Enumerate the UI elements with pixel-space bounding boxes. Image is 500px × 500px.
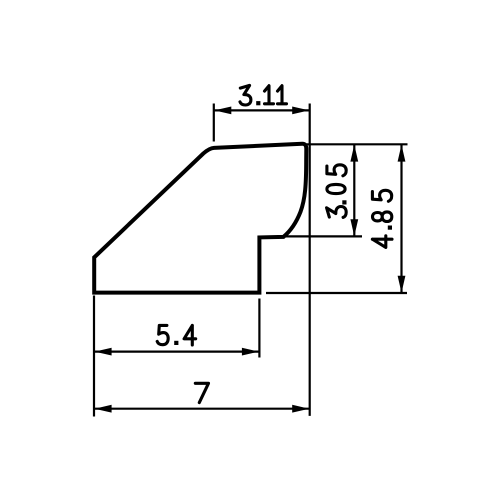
label 3.05 (rotated)	[327, 165, 347, 218]
extension line bottom horizontal (4.85 bottom)	[266, 292, 407, 294]
dimension line 7	[94, 408, 309, 410]
profile outline	[94, 144, 306, 293]
extension line mid horizontal (3.05 bottom)	[284, 235, 362, 237]
label 5.4	[157, 325, 196, 345]
extension line 5.4 right vertical	[258, 299, 260, 358]
extension line right (3.11 and 7)	[309, 104, 311, 416]
extension line left of 3.11	[213, 104, 215, 142]
dimension line 4.85	[400, 145, 402, 293]
dimension line 3.05	[353, 145, 355, 237]
dimension line 3.11	[214, 109, 310, 111]
extension line top horizontal (3.05/4.85 top)	[300, 143, 408, 145]
dimension line 5.4	[94, 351, 259, 353]
label 3.11	[240, 85, 287, 105]
label 4.85 (rotated)	[372, 190, 392, 247]
label 7	[195, 383, 208, 402]
extension line bottom-left vertical	[93, 296, 95, 417]
